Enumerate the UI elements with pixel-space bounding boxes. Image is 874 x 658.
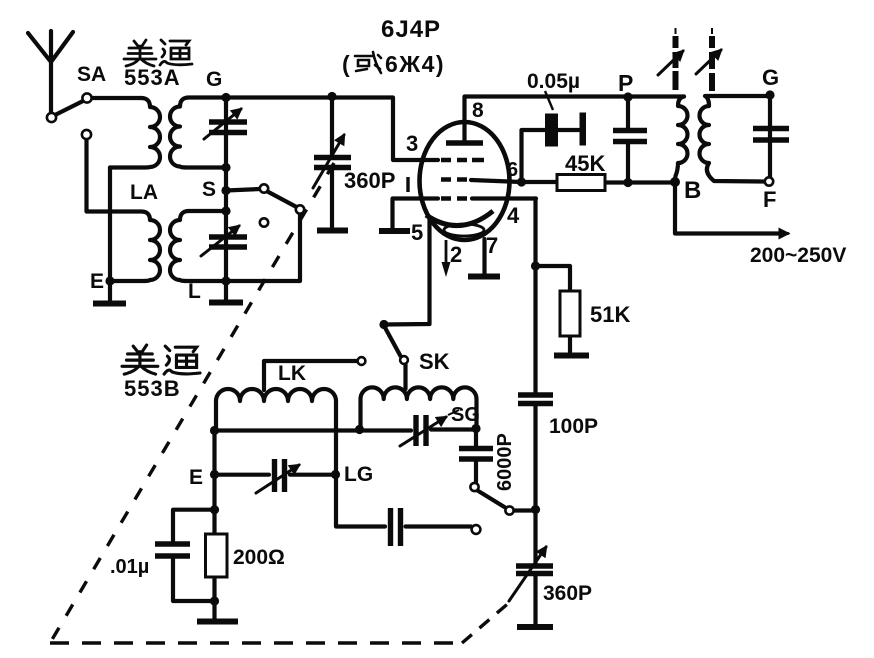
svg-text:LA: LA xyxy=(130,181,158,204)
svg-text:2: 2 xyxy=(450,242,462,267)
svg-text:(: ( xyxy=(342,51,350,77)
svg-text:S: S xyxy=(202,178,216,201)
svg-text:P: P xyxy=(618,70,633,96)
svg-text:G: G xyxy=(762,65,779,90)
svg-text:SG: SG xyxy=(451,404,480,426)
svg-text:553B: 553B xyxy=(124,376,181,401)
svg-text:360P: 360P xyxy=(543,582,592,605)
svg-text:45K: 45K xyxy=(565,151,605,176)
svg-text:4: 4 xyxy=(507,203,520,228)
svg-text:0.05µ: 0.05µ xyxy=(527,70,580,93)
svg-text:SA: SA xyxy=(77,63,106,86)
svg-text:5: 5 xyxy=(411,220,423,245)
svg-text:100P: 100P xyxy=(549,415,598,438)
svg-text:F: F xyxy=(763,187,776,212)
svg-text:B: B xyxy=(684,177,701,204)
svg-text:L: L xyxy=(188,280,201,303)
svg-text:LK: LK xyxy=(278,362,306,385)
svg-text:200Ω: 200Ω xyxy=(233,546,285,569)
svg-text:.01µ: .01µ xyxy=(110,556,149,578)
svg-text:7: 7 xyxy=(486,233,498,258)
svg-text:6Ж4): 6Ж4) xyxy=(385,51,445,77)
svg-text:8: 8 xyxy=(472,99,484,122)
svg-text:6J4P: 6J4P xyxy=(381,16,441,43)
svg-text:E: E xyxy=(90,270,104,293)
svg-text:51K: 51K xyxy=(590,302,630,327)
svg-text:G: G xyxy=(206,68,222,91)
svg-text:360P: 360P xyxy=(344,168,395,193)
svg-text:LG: LG xyxy=(344,463,373,486)
svg-text:6: 6 xyxy=(507,159,518,181)
svg-text:6000P: 6000P xyxy=(494,433,516,491)
svg-text:E: E xyxy=(189,466,203,489)
svg-text:SK: SK xyxy=(419,349,450,374)
svg-text:3: 3 xyxy=(406,131,418,156)
svg-text:200~250V: 200~250V xyxy=(750,244,846,267)
svg-text:553A: 553A xyxy=(124,65,181,90)
